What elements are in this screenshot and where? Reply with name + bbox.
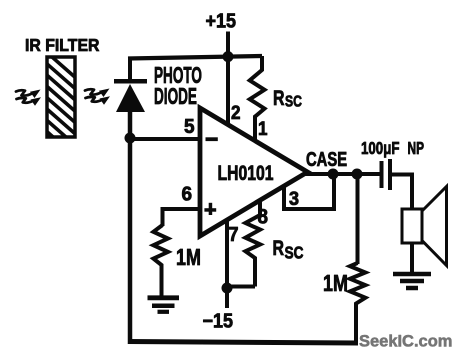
wire pin 2 from rail (226, 56, 230, 126)
resistor R1 1M (left) (153, 225, 168, 296)
svg-text:−15: −15 (203, 311, 234, 333)
svg-text:6: 6 (182, 183, 193, 206)
svg-text:DIODE: DIODE (154, 85, 197, 111)
wire stub to -15 (225, 288, 229, 308)
wire down to 1M right (356, 174, 360, 264)
svg-text:+15: +15 (206, 11, 237, 33)
capacitor C1 100uF (380, 159, 393, 190)
wire pin 6 (163, 209, 201, 226)
junction node inverting input (125, 133, 136, 144)
wire bottom feedback loop (128, 342, 358, 344)
light rays right of filter (85, 89, 102, 102)
svg-text:CASE: CASE (306, 148, 347, 171)
svg-text:2: 2 (231, 102, 241, 123)
svg-text:7: 7 (229, 224, 239, 246)
junction dot -15 node (222, 283, 233, 294)
wire RSC bottom to -15 node (227, 285, 255, 289)
wire photodiode down to bottom loop (128, 110, 133, 344)
junction dot output A (328, 169, 339, 180)
wire op-amp output (305, 172, 381, 176)
label RSC top (273, 86, 302, 111)
svg-text:5: 5 (184, 116, 195, 139)
plus input sign (204, 203, 216, 215)
svg-text:1: 1 (258, 118, 268, 139)
resistor R2 1M (right) (350, 263, 365, 344)
svg-text:1M: 1M (176, 245, 201, 271)
ground below speaker (393, 274, 431, 288)
photo diode D1 (114, 79, 147, 112)
svg-text:R: R (273, 236, 285, 260)
svg-text:R: R (273, 86, 285, 110)
wire pin 3 step (284, 172, 334, 209)
svg-text:IR FILTER: IR FILTER (25, 35, 99, 55)
op-amp U1 LH0101 (200, 108, 308, 236)
svg-text:1M: 1M (323, 271, 348, 297)
wire speaker to ground (410, 243, 414, 274)
svg-text:SC: SC (285, 93, 302, 111)
ground below 1M left (148, 298, 180, 312)
resistor RSC top (250, 56, 265, 141)
junction dot output B (352, 169, 363, 180)
resistor RSC bottom (245, 201, 260, 287)
junction dot at +15 rail (223, 51, 234, 62)
wire top horizontal rail (128, 56, 262, 59)
svg-text:SC: SC (285, 244, 304, 263)
IR filter element (hatched rectangle) (40, 46, 85, 176)
wire pin 5 to op-amp (130, 137, 199, 141)
light rays left of filter (16, 90, 33, 103)
svg-text:SeekIC.com: SeekIC.com (359, 331, 452, 350)
wire +15 down to junction (226, 32, 230, 58)
svg-text:100μF: 100μF (361, 139, 400, 158)
speaker LS1 (402, 187, 447, 266)
svg-text:3: 3 (289, 188, 299, 210)
svg-text:LH0101: LH0101 (218, 161, 274, 185)
svg-text:NP: NP (408, 139, 425, 159)
wire pin 7 down to -15 node (225, 219, 229, 288)
wire corner down to photodiode (128, 57, 132, 82)
label RSC bottom (273, 236, 304, 263)
minus input sign (206, 137, 218, 141)
wire capacitor to speaker (392, 175, 412, 211)
